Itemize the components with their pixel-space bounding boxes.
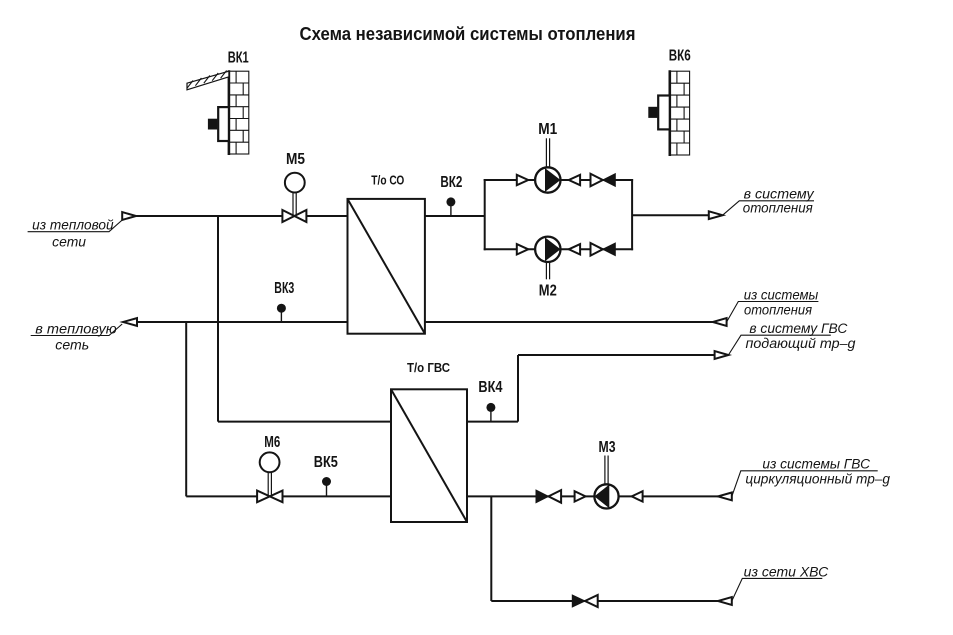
svg-text:в тепловую: в тепловую	[35, 321, 116, 336]
flow arrow after pump M1	[569, 175, 580, 185]
arrow outlet to heat network	[123, 318, 137, 326]
wire pump-branch left header x=484.7	[484, 179, 486, 250]
callout from heating system leader	[727, 302, 819, 323]
callout DHW supply text	[746, 321, 857, 351]
pump M3	[594, 484, 618, 508]
node BK2	[446, 197, 455, 216]
label M1	[538, 121, 557, 138]
arrow outlet to heating system	[709, 211, 723, 219]
label BK5	[314, 454, 338, 471]
check valve before pump M1	[517, 175, 528, 185]
wire pump-branch top y=180	[484, 179, 633, 181]
label BK2	[440, 174, 462, 191]
callout to heating system text	[743, 186, 815, 215]
label M5	[286, 151, 305, 168]
callout to heat network text	[35, 321, 116, 352]
svg-text:ВК4: ВК4	[478, 379, 502, 396]
wire V6 riser x=491 from P5 to P6	[490, 496, 492, 601]
svg-text:циркуляционный тр–g: циркуляционный тр–g	[745, 472, 890, 487]
arrow outlet DHW supply	[715, 351, 729, 359]
wire P5 DHW circulation y=496.4	[186, 495, 718, 497]
label BK6	[669, 48, 691, 65]
flow arrow before pump M3	[575, 491, 586, 501]
label M6	[264, 434, 280, 451]
title text	[300, 24, 636, 44]
wire V1 riser x=218 from P1 to P4	[217, 216, 219, 422]
svg-text:ВК3: ВК3	[274, 280, 294, 297]
wall sensor BK1 knob	[208, 119, 218, 130]
svg-text:сеть: сеть	[55, 337, 89, 352]
svg-text:из системы ГВС: из системы ГВС	[762, 457, 870, 472]
wire P4 exchanger2 primary y=421.6	[218, 421, 518, 423]
node BK5	[322, 477, 331, 496]
callout DHW circulation leader	[732, 471, 878, 497]
wire V5 riser x=518 from P3 to P4	[517, 355, 519, 422]
wall sensor BK6 housing	[658, 96, 670, 130]
valve M5 body	[282, 210, 306, 222]
pump M1	[535, 167, 560, 192]
callout to heat network leader	[31, 324, 123, 336]
svg-text:отопления: отопления	[744, 302, 812, 317]
wall sensor BK1 hatched bar	[187, 71, 229, 90]
valve M6 actuator	[260, 452, 280, 472]
arrow inlet cold water	[718, 597, 732, 605]
wire P3 DHW supply y=355	[518, 354, 715, 356]
label M3	[599, 439, 616, 456]
svg-text:сети: сети	[52, 235, 86, 250]
svg-text:М3: М3	[599, 439, 616, 456]
label BK4	[478, 379, 502, 396]
svg-text:в систему: в систему	[744, 186, 815, 201]
callout from heating system text	[744, 287, 819, 317]
callout from heat network leader	[28, 220, 123, 232]
callout to heating system leader	[723, 201, 814, 215]
pump M2 stem	[546, 262, 549, 279]
wall sensor BK6 brick wall	[670, 70, 690, 156]
pump M2	[535, 237, 560, 262]
arrow inlet from heating system	[713, 318, 727, 326]
svg-text:ВК2: ВК2	[440, 174, 462, 191]
label BK3	[274, 280, 294, 297]
flow arrow after pump M2	[569, 244, 580, 254]
node BK4	[486, 403, 495, 422]
svg-text:подающий тр–g: подающий тр–g	[746, 336, 857, 351]
label M2	[539, 283, 557, 300]
heat exchanger T/o GVS	[391, 389, 467, 522]
label BK1	[228, 50, 249, 67]
arrow inlet DHW circulation	[718, 493, 732, 501]
valve M5 stem	[293, 193, 296, 216]
svg-text:из тепловой: из тепловой	[32, 218, 114, 233]
wire P6 cold water inlet y=601	[491, 600, 718, 602]
svg-text:ВК1: ВК1	[228, 50, 249, 67]
svg-text:ВК5: ВК5	[314, 454, 338, 471]
check valve before pump M2	[517, 244, 528, 254]
svg-text:М1: М1	[538, 121, 557, 138]
wall sensor BK1 brick wall	[229, 70, 249, 155]
balancing valve on circulation line	[536, 490, 561, 503]
callout cold water text	[744, 564, 829, 579]
svg-text:отопления: отопления	[743, 200, 813, 215]
valve on cold water line	[572, 595, 597, 607]
arrow inlet from heat network	[122, 212, 136, 220]
shutoff valve M1 branch	[591, 174, 616, 187]
wire P2 return to heat network y=322	[137, 321, 713, 323]
pump M3 stem	[605, 456, 608, 485]
node BK3	[277, 304, 286, 322]
callout from heat network text	[32, 218, 114, 250]
heat exchanger T/o CO	[348, 199, 425, 334]
svg-text:Т/о СО: Т/о СО	[371, 174, 404, 188]
svg-text:из системы: из системы	[744, 287, 819, 302]
callout DHW circulation text	[745, 457, 890, 487]
svg-text:ВК6: ВК6	[669, 48, 691, 65]
valve M6 body	[257, 491, 282, 503]
pump M1 stem	[546, 138, 549, 167]
callout cold water leader	[732, 578, 823, 601]
svg-text:из сети ХВС: из сети ХВС	[744, 564, 829, 579]
flow arrow after pump M3	[632, 491, 643, 501]
wall sensor BK1 housing	[218, 107, 229, 141]
svg-text:в систему ГВС: в систему ГВС	[749, 321, 847, 336]
wire P1 outlet to heating system y=215.2	[632, 214, 709, 216]
svg-text:Т/о ГВС: Т/о ГВС	[407, 361, 450, 375]
svg-text:Схема независимой системы отоп: Схема независимой системы отопления	[300, 24, 636, 44]
callout DHW supply leader	[728, 335, 830, 355]
valve M5 actuator	[285, 173, 305, 193]
svg-text:М2: М2	[539, 283, 557, 300]
label T/o GVS	[407, 361, 450, 375]
wire P1 supply from heat network y=216	[136, 215, 485, 217]
wire V2 riser x=186 from P2 to P5	[185, 322, 187, 496]
label T/o CO	[371, 174, 404, 188]
svg-text:М5: М5	[286, 151, 305, 168]
wall sensor BK6 knob	[648, 107, 657, 118]
svg-text:М6: М6	[264, 434, 280, 451]
wire pump-branch right header x=632.1	[631, 179, 633, 250]
wire pump-branch bottom y=249.3	[484, 248, 633, 250]
valve M6 stem	[268, 472, 271, 495]
shutoff valve M2 branch	[591, 243, 616, 256]
